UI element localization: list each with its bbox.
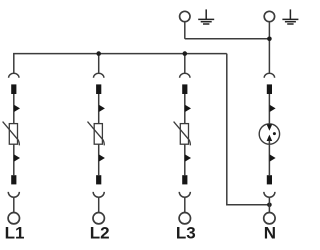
wire L1 stem bbox=[13, 197, 15, 212]
svg-text:N: N bbox=[264, 224, 276, 243]
junction dot N stem bbox=[267, 203, 272, 208]
junction dot L2 bbox=[96, 51, 101, 56]
label L2 bbox=[90, 224, 110, 243]
connector top L1 bbox=[9, 73, 19, 78]
thermal disconnect upper N bbox=[267, 84, 272, 94]
wire L1 lower bbox=[13, 144, 15, 175]
ground symbol 1 bbox=[198, 9, 214, 24]
wire phase bus bbox=[14, 54, 227, 74]
wire bus to N link bbox=[227, 54, 270, 205]
thermal disconnect upper L1 bbox=[11, 84, 16, 94]
svg-text:L3: L3 bbox=[176, 224, 196, 243]
varistor L2 bbox=[88, 122, 105, 146]
indicator triangle upper L2 bbox=[99, 105, 105, 112]
thermal disconnect upper L3 bbox=[182, 84, 187, 94]
spark gap N bbox=[259, 124, 279, 144]
connector top L3 bbox=[180, 73, 190, 78]
wire L2 lower bbox=[98, 144, 100, 175]
wire upper PE bus bbox=[185, 38, 270, 40]
indicator triangle lower N bbox=[270, 154, 276, 161]
thermal disconnect lower L1 bbox=[11, 175, 16, 184]
indicator triangle upper L1 bbox=[14, 105, 20, 112]
wire N upper bbox=[268, 94, 270, 125]
wire L3 upper bbox=[184, 94, 186, 124]
indicator triangle lower L3 bbox=[185, 154, 191, 161]
terminal N bbox=[264, 213, 275, 224]
connector bottom N bbox=[264, 192, 275, 197]
svg-text:L2: L2 bbox=[90, 224, 110, 243]
terminal L1 bbox=[8, 213, 19, 224]
wire N stem bbox=[268, 197, 270, 212]
wire L1 upper bbox=[13, 94, 15, 124]
label L3 bbox=[176, 224, 196, 243]
svg-text:L1: L1 bbox=[5, 224, 25, 243]
indicator triangle upper L3 bbox=[185, 105, 191, 112]
wire L2 upper bbox=[98, 94, 100, 124]
connector bottom L3 bbox=[179, 192, 190, 197]
wire L3 stub bbox=[184, 54, 186, 74]
indicator triangle lower L2 bbox=[99, 154, 105, 161]
varistor L1 bbox=[3, 122, 20, 146]
thermal disconnect lower L3 bbox=[182, 175, 187, 184]
wire L3 stem bbox=[184, 197, 186, 212]
varistor L3 bbox=[174, 122, 191, 146]
terminal PE1 (top left circle) bbox=[180, 11, 190, 21]
connector bottom L2 bbox=[93, 192, 104, 197]
ground symbol 2 bbox=[282, 9, 298, 24]
label L1 bbox=[5, 224, 25, 243]
label N bbox=[264, 224, 276, 243]
indicator triangle upper N bbox=[270, 105, 276, 112]
terminal L3 bbox=[179, 213, 190, 224]
thermal disconnect upper L2 bbox=[96, 84, 101, 94]
terminal PE2 (top right circle) bbox=[264, 11, 274, 21]
wire L2 stub bbox=[98, 54, 100, 74]
connector top L2 bbox=[93, 73, 103, 78]
wire PE2 riser bbox=[268, 22, 270, 74]
wire N lower bbox=[268, 141, 270, 176]
junction dot L3 bbox=[183, 51, 188, 56]
wire PE1 stem bbox=[184, 22, 186, 39]
indicator triangle lower L1 bbox=[14, 154, 20, 161]
connector bottom L1 bbox=[8, 192, 19, 197]
terminal L2 bbox=[93, 213, 104, 224]
wire L3 lower bbox=[184, 144, 186, 175]
thermal disconnect lower L2 bbox=[96, 175, 101, 184]
junction dot PE bus / riser bbox=[267, 37, 272, 42]
connector top N bbox=[264, 73, 274, 78]
thermal disconnect lower N bbox=[267, 175, 272, 184]
wire L2 stem bbox=[98, 197, 100, 212]
